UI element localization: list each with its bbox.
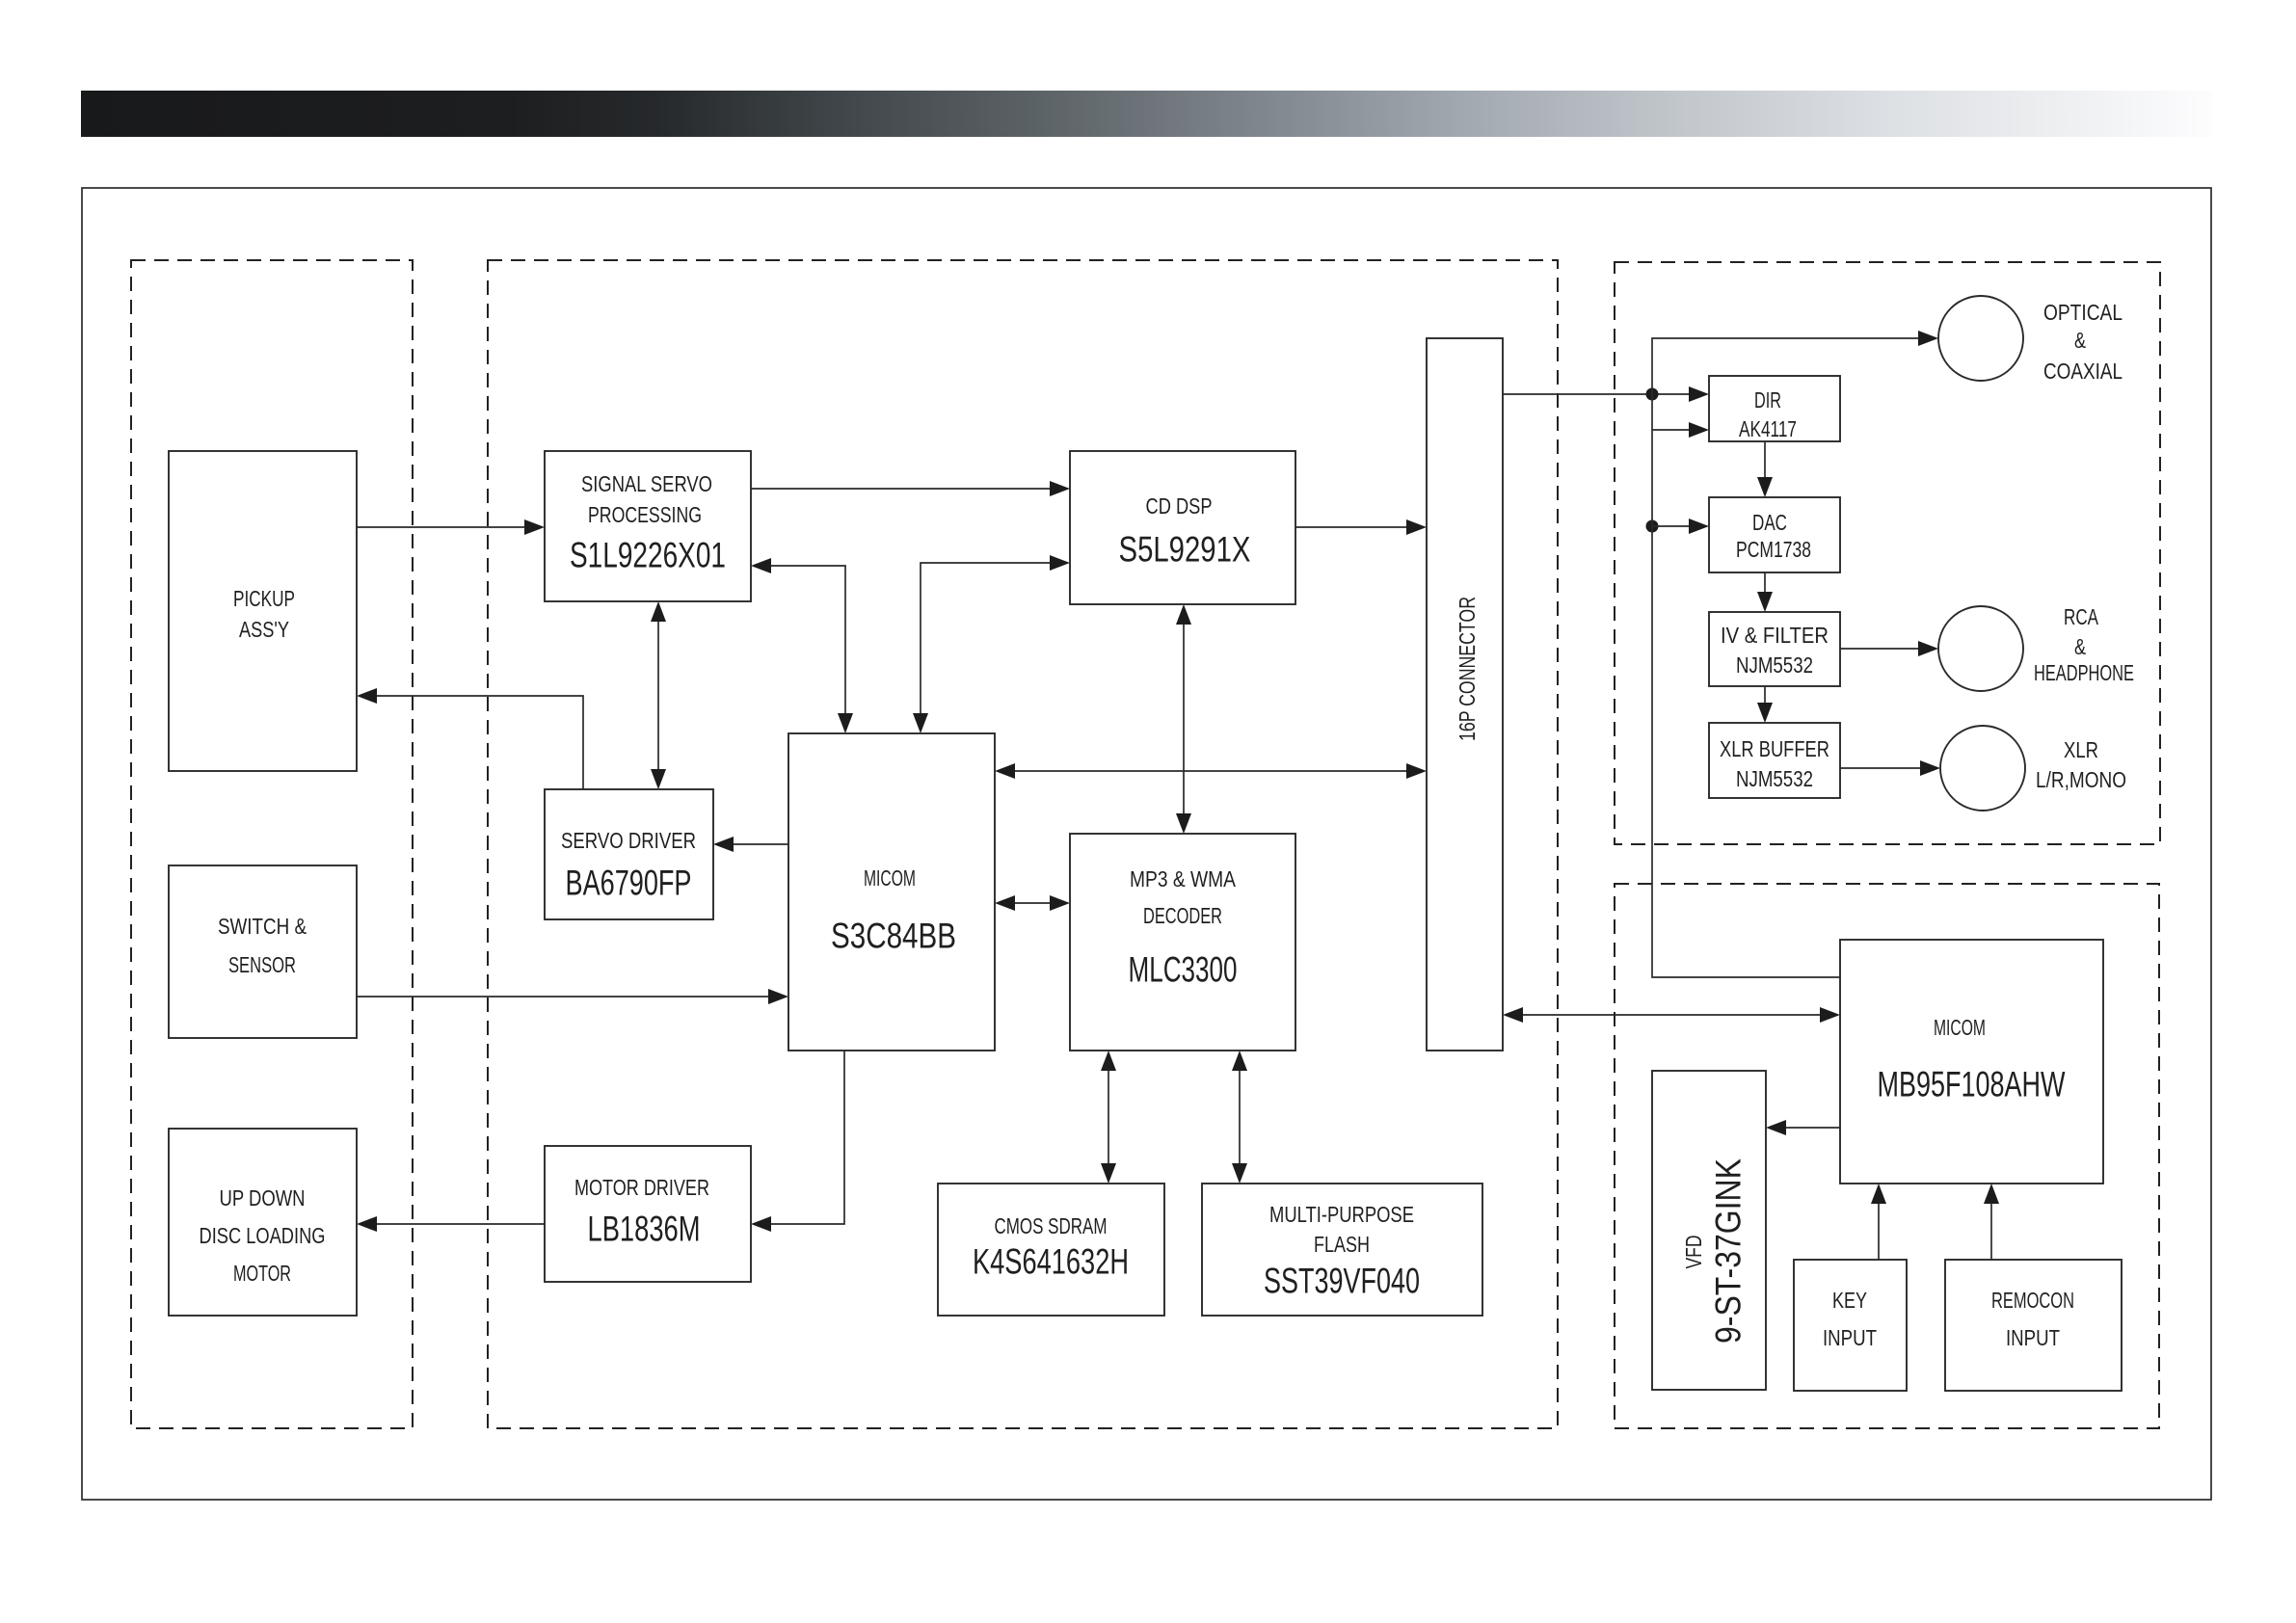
junction node at DAC input — [1646, 520, 1659, 533]
junction node at DIR input — [1646, 388, 1659, 401]
svg-text:MP3 & WMA: MP3 & WMA — [1130, 866, 1237, 891]
wire 16P CONNECTOR to DIR — [1503, 386, 1709, 402]
svg-text:DAC: DAC — [1752, 510, 1787, 535]
wire MICOM to 16P CONNECTOR — [995, 763, 1427, 779]
block U9 DIR AK4117 — [1709, 376, 1840, 441]
dashed group box: mechanism (left) — [131, 260, 413, 1428]
svg-text:UP DOWN: UP DOWN — [220, 1185, 306, 1211]
svg-text:CMOS SDRAM: CMOS SDRAM — [995, 1213, 1108, 1238]
block U11 IV & FILTER NJM5532 — [1709, 612, 1840, 686]
svg-text:DISC LOADING: DISC LOADING — [200, 1223, 326, 1248]
svg-text:SENSOR: SENSOR — [228, 952, 296, 977]
wire net bus down to MICOM MB95F108AHW — [1652, 394, 1840, 977]
svg-text:INPUT: INPUT — [2006, 1325, 2060, 1350]
wire MICOM to SERVO DRIVER — [713, 837, 788, 852]
svg-text:KEY: KEY — [1832, 1288, 1867, 1313]
svg-text:MLC3300: MLC3300 — [1129, 949, 1238, 989]
svg-text:SIGNAL SERVO: SIGNAL SERVO — [581, 471, 712, 496]
block REMOCON INPUT — [1945, 1260, 2122, 1391]
svg-text:PROCESSING: PROCESSING — [588, 502, 702, 527]
block U12 XLR BUFFER NJM5532 — [1709, 723, 1840, 798]
svg-text:CD DSP: CD DSP — [1146, 493, 1213, 519]
svg-text:9-ST-37GINK: 9-ST-37GINK — [1708, 1158, 1748, 1344]
outer border frame — [82, 188, 2211, 1500]
svg-text:SST39VF040: SST39VF040 — [1264, 1261, 1420, 1300]
svg-text:VFD: VFD — [1681, 1236, 1706, 1269]
wire SWITCH & SENSOR to MICOM — [357, 989, 788, 1004]
wire CD DSP to 16P CONNECTOR — [1295, 519, 1427, 535]
svg-text:DECODER: DECODER — [1143, 903, 1222, 928]
wire SERVO DRIVER to PICKUP elbow — [357, 688, 583, 789]
wire SIGNAL SERVO to SERVO DRIVER — [651, 601, 666, 789]
svg-text:NJM5532: NJM5532 — [1736, 766, 1813, 791]
svg-text:ASS'Y: ASS'Y — [239, 617, 289, 642]
svg-text:OPTICAL: OPTICAL — [2043, 300, 2122, 325]
wire DIR to DAC — [1757, 441, 1773, 497]
wire XLR BUFFER to XLR terminal — [1840, 760, 1940, 776]
wire SIGNAL SERVO to MICOM elbow — [751, 558, 853, 733]
svg-text:K4S641632H: K4S641632H — [973, 1241, 1129, 1281]
block U8 MULTI-PURPOSE FLASH SST39VF040 — [1202, 1184, 1482, 1316]
svg-text:&: & — [2074, 634, 2086, 659]
svg-text:S5L9291X: S5L9291X — [1119, 529, 1251, 569]
svg-text:LB1836M: LB1836M — [588, 1209, 701, 1248]
svg-text:16P CONNECTOR: 16P CONNECTOR — [1455, 597, 1480, 741]
terminal OPTICAL & COAXIAL — [1938, 296, 2122, 384]
block UP DOWN DISC LOADING MOTOR — [169, 1129, 357, 1316]
wire IV & FILTER to RCA terminal — [1840, 641, 1938, 656]
svg-text:DIR: DIR — [1754, 387, 1781, 412]
svg-text:SERVO DRIVER: SERVO DRIVER — [561, 828, 696, 853]
svg-text:S1L9226X01: S1L9226X01 — [570, 535, 726, 574]
block SWITCH & SENSOR — [169, 865, 357, 1038]
wire MP3 DECODER to FLASH — [1232, 1051, 1247, 1184]
dashed group box: main board (middle) — [488, 260, 1558, 1428]
terminal RCA & HEADPHONE — [1938, 604, 2134, 691]
terminal XLR L/R,MONO — [1940, 726, 2126, 811]
svg-text:HEADPHONE: HEADPHONE — [2034, 660, 2134, 685]
svg-text:MB95F108AHW: MB95F108AHW — [1878, 1064, 2066, 1104]
block U1 SIGNAL SERVO PROCESSING S1L9226X01 — [545, 451, 751, 601]
svg-text:PICKUP: PICKUP — [233, 586, 295, 611]
wire SIGNAL SERVO to CD DSP — [751, 481, 1070, 496]
block U2 SERVO DRIVER BA6790FP — [545, 789, 713, 919]
svg-text:S3C84BB: S3C84BB — [831, 916, 956, 955]
wire MP3 DECODER to CMOS SDRAM — [1101, 1051, 1116, 1184]
block KEY INPUT — [1794, 1260, 1907, 1391]
svg-text:MULTI-PURPOSE: MULTI-PURPOSE — [1269, 1202, 1414, 1227]
wire MICOM to MP3 DECODER — [995, 895, 1070, 911]
svg-text:MICOM: MICOM — [864, 865, 916, 891]
dashed group box: audio board (top right) — [1615, 262, 2160, 844]
wire MICOM MB95F108AHW to VFD — [1766, 1120, 1840, 1135]
svg-text:&: & — [2074, 328, 2086, 353]
svg-text:MOTOR: MOTOR — [233, 1261, 291, 1286]
wire MICOM to MOTOR DRIVER elbow — [751, 1051, 844, 1232]
svg-text:AK4117: AK4117 — [1739, 416, 1797, 441]
wire MICOM to CD DSP elbow — [913, 555, 1070, 733]
wire PICKUP to SIGNAL SERVO — [357, 519, 545, 535]
svg-text:MOTOR DRIVER: MOTOR DRIVER — [574, 1175, 709, 1200]
dashed group box: front board (bottom right) — [1615, 884, 2159, 1428]
svg-text:REMOCON: REMOCON — [1991, 1288, 2074, 1313]
wire node to OPTICAL terminal elbow — [1652, 331, 1938, 394]
block U3 MOTOR DRIVER LB1836M — [545, 1146, 751, 1282]
svg-text:INPUT: INPUT — [1823, 1325, 1877, 1350]
svg-text:BA6790FP: BA6790FP — [566, 863, 692, 902]
wire KEY INPUT to MICOM MB95F108AHW — [1871, 1184, 1886, 1260]
wire DAC to IV & FILTER — [1757, 572, 1773, 612]
svg-text:RCA: RCA — [2064, 604, 2098, 629]
block U13 MICOM MB95F108AHW — [1840, 940, 2103, 1184]
block U5 CD DSP S5L9291X — [1070, 451, 1295, 604]
wire REMOCON INPUT to MICOM MB95F108AHW — [1984, 1184, 1999, 1260]
wire node to DIR second input — [1652, 422, 1709, 438]
svg-text:L/R,MONO: L/R,MONO — [2036, 767, 2126, 792]
wire IV & FILTER to XLR BUFFER — [1757, 686, 1773, 723]
svg-text:XLR BUFFER: XLR BUFFER — [1720, 736, 1829, 761]
connector J1 16P CONNECTOR — [1427, 338, 1503, 1051]
wire node to DAC — [1652, 519, 1709, 534]
block U10 DAC PCM1738 — [1709, 497, 1840, 572]
svg-text:FLASH: FLASH — [1314, 1232, 1370, 1257]
svg-text:MICOM: MICOM — [1934, 1015, 1986, 1040]
svg-text:SWITCH &: SWITCH & — [218, 914, 307, 939]
svg-text:PCM1738: PCM1738 — [1736, 537, 1811, 562]
svg-text:XLR: XLR — [2064, 737, 2098, 762]
block PICKUP ASS'Y — [169, 451, 357, 771]
svg-text:COAXIAL: COAXIAL — [2043, 359, 2122, 384]
wire MOTOR DRIVER to UP DOWN MOTOR — [357, 1216, 545, 1232]
header gradient bar — [81, 91, 2213, 137]
block VFD 9-ST-37GINK — [1652, 1071, 1766, 1390]
block U6 MP3 & WMA DECODER MLC3300 — [1070, 834, 1295, 1051]
block U4 MICOM S3C84BB — [788, 733, 995, 1051]
svg-text:NJM5532: NJM5532 — [1736, 652, 1813, 678]
block U7 CMOS SDRAM K4S641632H — [938, 1184, 1164, 1316]
svg-text:IV & FILTER: IV & FILTER — [1721, 623, 1829, 648]
wire CD DSP to MP3 DECODER — [1176, 604, 1191, 834]
wire 16P CONNECTOR to MICOM MB95F108AHW — [1503, 1007, 1840, 1023]
